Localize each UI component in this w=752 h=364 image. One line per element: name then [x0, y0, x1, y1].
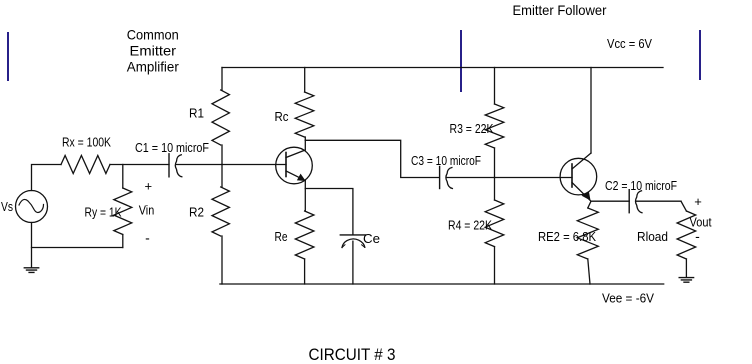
- capacitor C2 curved plate: [636, 191, 643, 213]
- resistor R1 lead top: [221, 68, 223, 91]
- Vs sine wave: [19, 199, 44, 212]
- svg-text:Vin: Vin: [139, 204, 155, 218]
- title Common Emitter Amplifier: [127, 26, 179, 74]
- svg-text:R2: R2: [189, 206, 204, 220]
- resistor R2 zigzag: [212, 187, 229, 236]
- capacitor Ce arc hook left: [342, 245, 345, 248]
- transistor Q1 body circle: [276, 147, 313, 184]
- svg-text:R4 = 22K: R4 = 22K: [448, 219, 493, 233]
- resistor Rc zigzag: [295, 92, 314, 137]
- resistor R2 lead bottom: [221, 236, 223, 284]
- resistor RE2 lead top: [588, 201, 591, 208]
- wire C2 to Rload: [637, 200, 681, 202]
- svg-text:CIRCUIT # 3: CIRCUIT # 3: [309, 346, 396, 364]
- resistor Ry zigzag: [114, 188, 132, 235]
- resistor R3 zigzag: [485, 104, 504, 148]
- svg-text:Ce: Ce: [363, 232, 380, 246]
- resistor R3 lead top: [494, 68, 496, 105]
- blue mark left: [7, 33, 9, 80]
- wire node to Q1 base: [222, 164, 286, 166]
- transistor Q2 emitter arrow: [582, 192, 590, 200]
- svg-text:C1 = 10 microF: C1 = 10 microF: [135, 141, 209, 155]
- blue mark right: [699, 31, 701, 79]
- resistor Rc lead bottom: [304, 137, 306, 140]
- svg-text:Vout: Vout: [690, 216, 712, 230]
- source Vs circle: [16, 191, 48, 223]
- svg-text:Re: Re: [275, 230, 288, 244]
- ground G1 (below Vs): [24, 268, 38, 273]
- resistor Re zigzag: [295, 211, 314, 259]
- wire Vs bottom lead: [31, 223, 33, 268]
- transistor Q1 collector stroke: [286, 150, 305, 158]
- resistor R4 zigzag: [485, 200, 504, 247]
- transistor Q2 base bar: [571, 164, 573, 187]
- transistor Q2 body circle: [560, 158, 597, 195]
- capacitor C1 curved plate: [175, 155, 182, 177]
- wire emitter to Ce: [305, 189, 353, 235]
- svg-text:Amplifier: Amplifier: [127, 59, 179, 75]
- resistor Rload lead bottom: [685, 259, 687, 277]
- svg-text:R1: R1: [189, 107, 204, 121]
- capacitor C3 straight plate: [439, 167, 441, 189]
- resistor Re lead bottom: [304, 259, 306, 284]
- resistor R1 lead bottom: [221, 145, 223, 165]
- capacitor C1 straight plate: [168, 154, 170, 177]
- svg-text:C2 = 10 microF: C2 = 10 microF: [605, 179, 677, 193]
- wire Ce to rail: [352, 241, 354, 284]
- Vee rail (bottom): [220, 283, 664, 285]
- transistor Q2 emitter stroke: [572, 183, 591, 202]
- svg-text:-: -: [145, 230, 150, 246]
- resistor Ry lead top: [122, 165, 124, 189]
- resistor R1 zigzag: [212, 90, 229, 145]
- svg-text:Rload: Rload: [637, 230, 668, 244]
- resistor RE2 lead bottom: [588, 259, 590, 284]
- wire collector to C3 elbow: [305, 140, 439, 177]
- svg-text:+: +: [694, 194, 702, 209]
- svg-text:Rx = 100K: Rx = 100K: [62, 135, 112, 149]
- svg-text:RE2 = 6.8K: RE2 = 6.8K: [538, 230, 597, 244]
- resistor R2 lead top: [221, 165, 223, 188]
- svg-text:Rc: Rc: [275, 110, 289, 124]
- wire Q2 emitter to C2: [591, 200, 629, 202]
- svg-text:Ry = 1K: Ry = 1K: [85, 206, 123, 220]
- Vcc rail (top): [222, 67, 663, 69]
- resistor R4 lead bottom: [494, 247, 496, 284]
- resistor R4 lead top: [494, 178, 496, 201]
- wire Q2 collector to rail: [590, 68, 592, 154]
- transistor Q1 base bar: [285, 153, 287, 177]
- wire Vs top lead: [32, 165, 62, 191]
- svg-text:Vcc = 6V: Vcc = 6V: [607, 37, 653, 51]
- svg-text:-: -: [695, 228, 700, 244]
- wire Q1 collector up: [304, 140, 306, 150]
- resistor R3 lead bottom: [494, 148, 496, 178]
- wire C3 to Q2 base: [447, 177, 572, 179]
- svg-text:Vee = -6V: Vee = -6V: [602, 292, 655, 306]
- capacitor C3 curved plate: [446, 168, 452, 189]
- capacitor C2 straight plate: [628, 190, 630, 213]
- wire C1 to R1/R2 node: [177, 164, 223, 166]
- transistor Q1 emitter arrow: [298, 174, 305, 180]
- wire Rx to Ry node: [110, 164, 169, 166]
- resistor Rc lead top: [304, 68, 306, 93]
- transistor Q1 emitter stroke: [286, 171, 305, 181]
- resistor RE2 zigzag: [577, 208, 598, 259]
- resistor Rload zigzag: [677, 211, 696, 259]
- capacitor Ce straight plate: [340, 234, 365, 236]
- wire bottom return: [32, 247, 123, 249]
- capacitor Ce curved plate: [342, 239, 365, 248]
- svg-text:R3 = 22K: R3 = 22K: [450, 122, 495, 136]
- svg-text:Emitter Follower: Emitter Follower: [513, 2, 607, 18]
- transistor Q2 collector stroke: [572, 153, 591, 169]
- capacitor Ce arc hook right: [362, 245, 365, 248]
- ground G2 (below Rload): [679, 278, 693, 283]
- svg-text:Vs: Vs: [1, 200, 13, 214]
- resistor Ry lead bottom: [122, 235, 124, 248]
- resistor Rx zigzag: [61, 156, 110, 174]
- svg-text:Common: Common: [127, 26, 179, 42]
- wire Q1 emitter down: [304, 181, 306, 212]
- svg-text:Emitter: Emitter: [130, 42, 177, 58]
- svg-text:C3 = 10 microF: C3 = 10 microF: [411, 154, 481, 168]
- resistor Rload lead top: [681, 201, 686, 211]
- blue mark middle: [460, 31, 462, 91]
- svg-text:+: +: [145, 179, 153, 194]
